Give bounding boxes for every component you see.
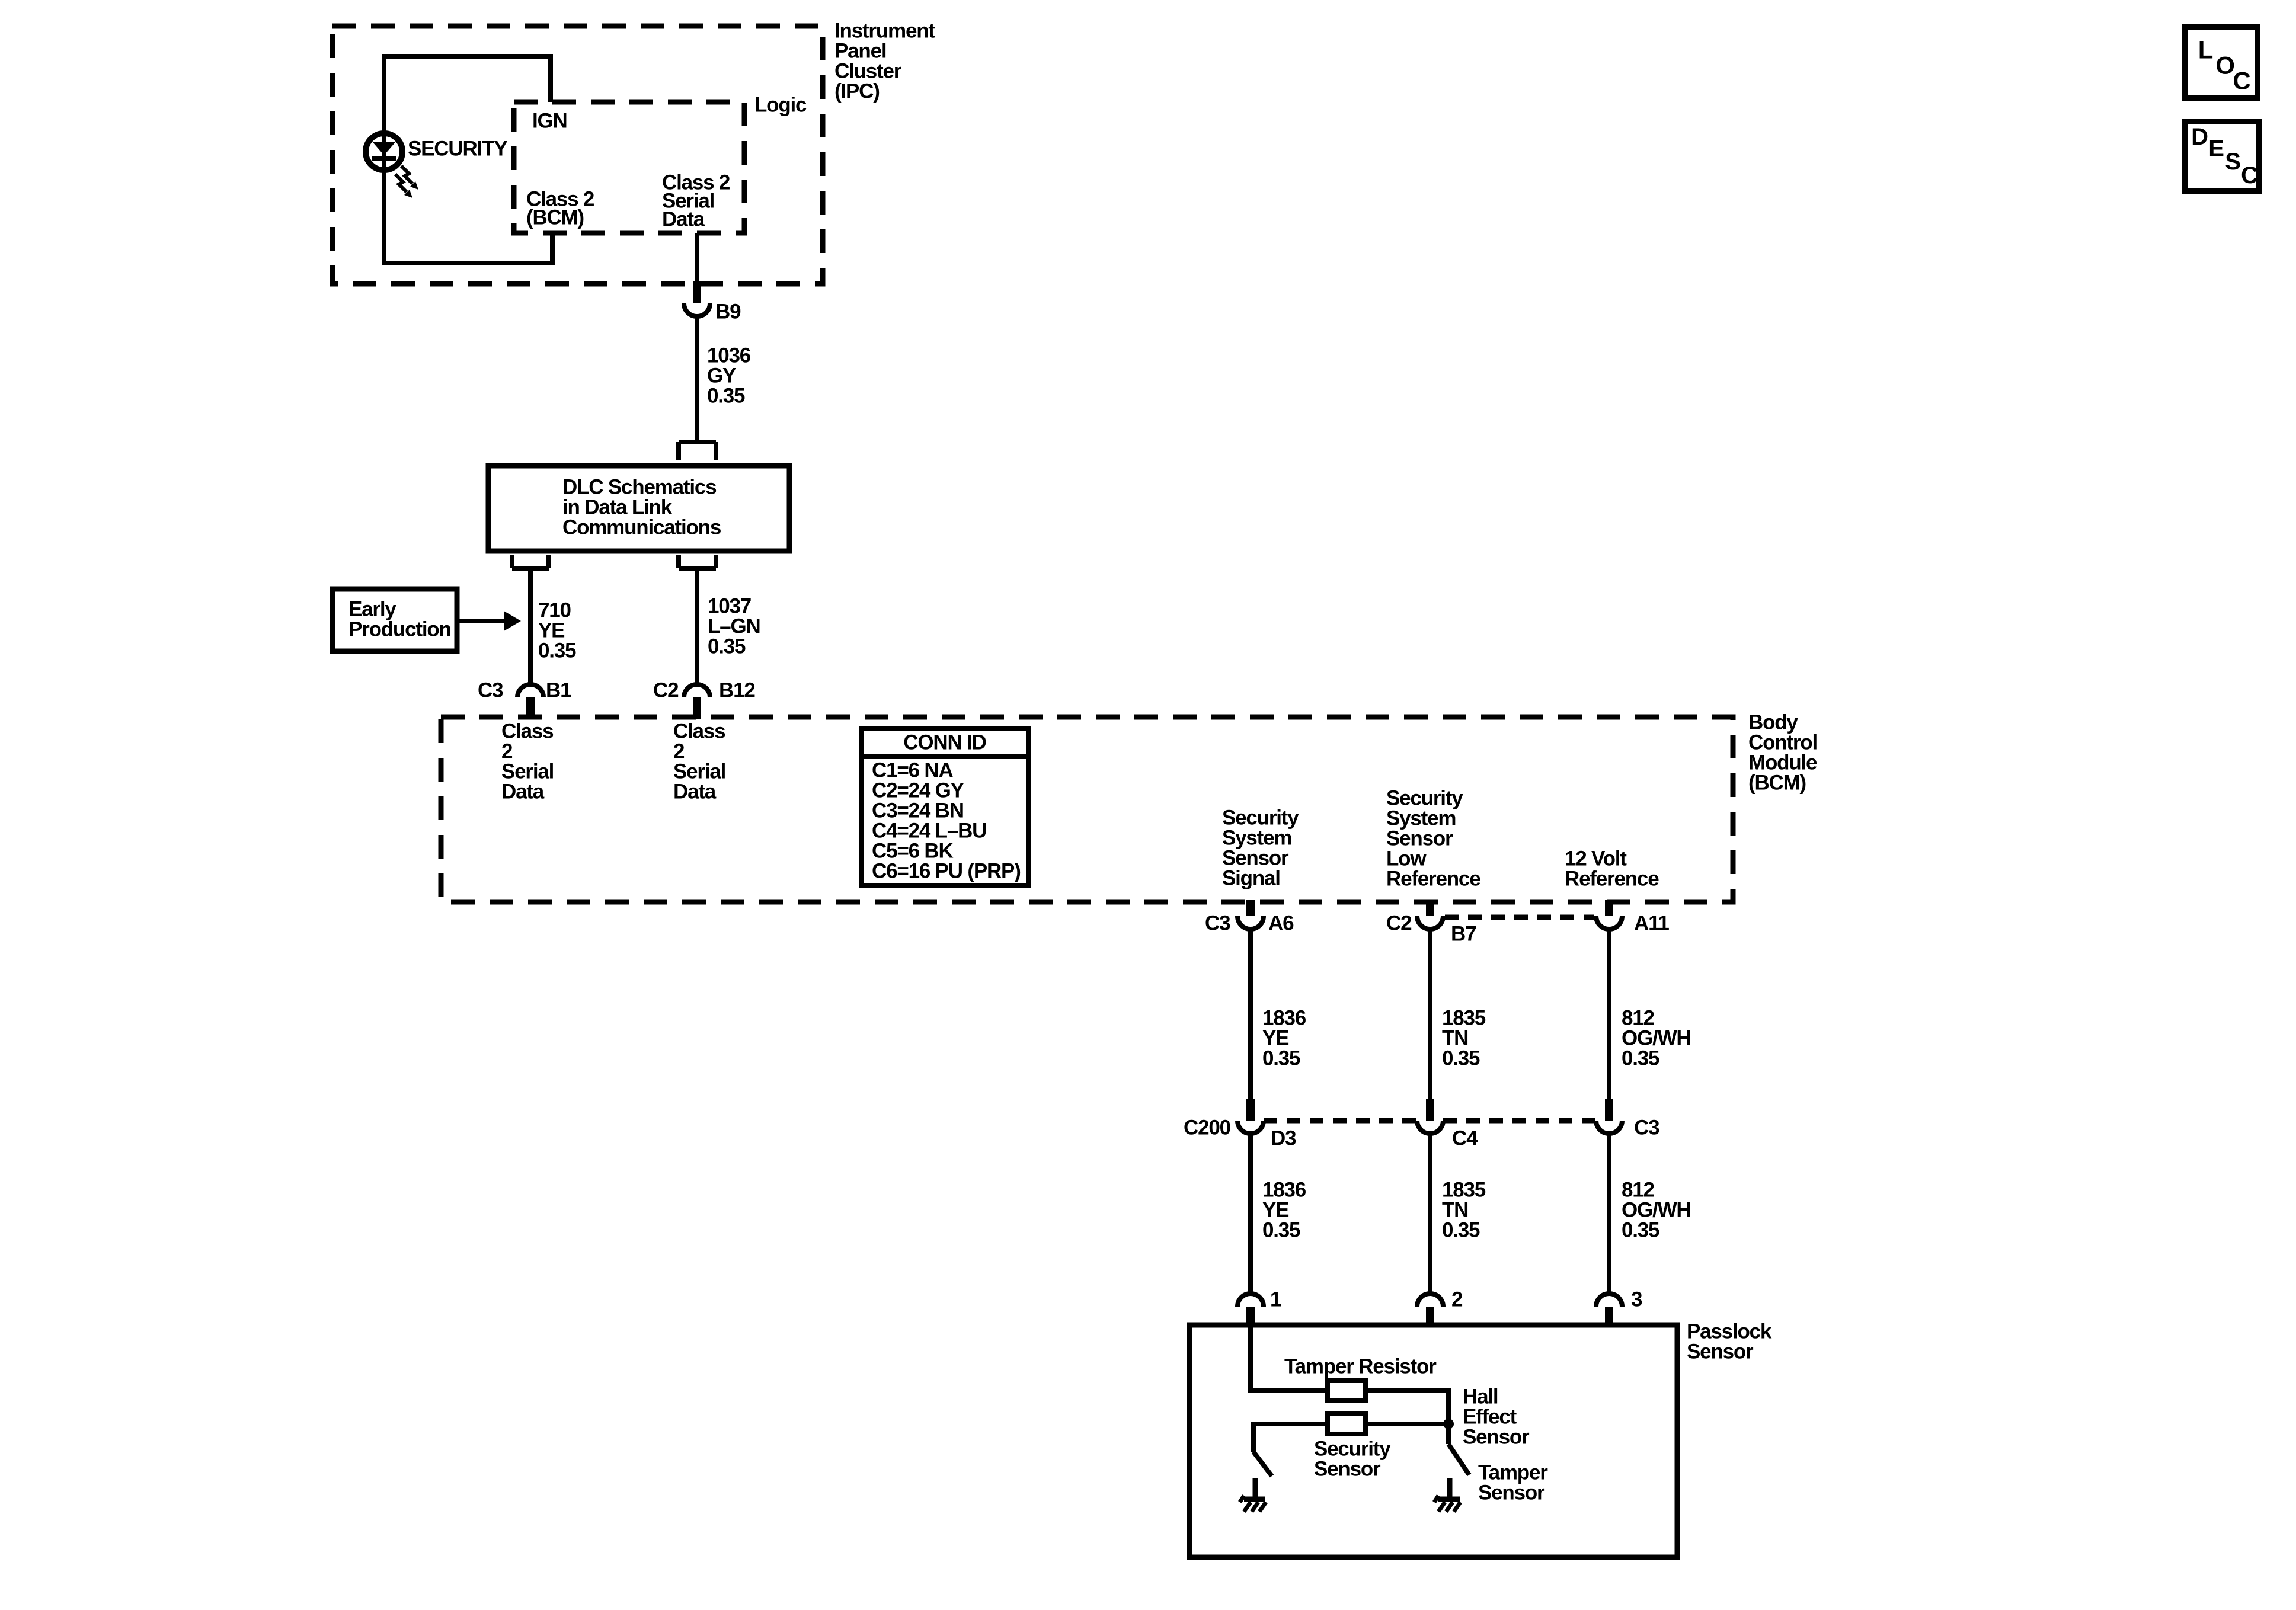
svg-text:C3: C3 — [1634, 1116, 1659, 1140]
wire 812 OG/WH 0.35 (C200 to Passlock pin 3) — [1607, 1134, 1611, 1295]
label: circuit 1037 L-GN 0.35 — [708, 595, 760, 658]
wire: tamper resistor to hall effect output — [1366, 1390, 1448, 1422]
label: Passlock Sensor — [1687, 1320, 1772, 1363]
wire 1036 GY 0.35 (IPC B9 to DLC) — [695, 316, 699, 442]
arrow from Early Production box to wire 710 — [457, 611, 521, 631]
svg-text:A6: A6 — [1268, 912, 1294, 935]
switch blade: security sensor switch — [1253, 1452, 1272, 1476]
svg-text:D: D — [2191, 124, 2208, 150]
connector pin C4 into C200 — [1426, 1099, 1434, 1121]
ground: security sensor ground — [1240, 1478, 1266, 1512]
label: Class 2 Serial Data pin — [662, 171, 730, 231]
label: pin 3 — [1631, 1288, 1642, 1311]
svg-text:C3: C3 — [478, 679, 503, 702]
ground lead below security switch — [1253, 1475, 1258, 1480]
svg-text:0.35: 0.35 — [707, 385, 745, 408]
svg-text:O: O — [2215, 52, 2234, 79]
svg-text:S: S — [2225, 149, 2240, 175]
svg-text:A11: A11 — [1634, 912, 1669, 935]
connector socket B9 (half circle) — [684, 303, 710, 316]
module box: Passlock Sensor — [1189, 1325, 1677, 1557]
label: Logic — [754, 94, 807, 117]
svg-text:0.35: 0.35 — [1442, 1219, 1480, 1242]
svg-text:D3: D3 — [1271, 1127, 1296, 1150]
label: C2 (connector id) — [653, 679, 679, 702]
callout box: Early Production — [332, 589, 457, 651]
dashed tie line between C200 sockets C4 and C3 — [1443, 1118, 1596, 1124]
svg-text:C: C — [2233, 67, 2250, 95]
connector pin B7 from BCM — [1426, 900, 1434, 916]
ground: tamper sensor ground — [1434, 1478, 1460, 1512]
svg-text:1: 1 — [1270, 1288, 1281, 1311]
svg-text:C2: C2 — [653, 679, 679, 702]
connector pin B1 into BCM — [526, 697, 535, 719]
svg-text:3: 3 — [1631, 1288, 1642, 1311]
dashed tie line between connector B7 and A11 (same connector) — [1445, 915, 1594, 920]
label: circuit 710 YE 0.35 — [538, 599, 576, 662]
svg-text:0.35: 0.35 — [708, 635, 746, 658]
connector socket A11 (half circle) — [1596, 916, 1622, 929]
label: Class 2 Serial Data (BCM pin B1) — [501, 720, 554, 804]
in-line connector bracket above DLC box — [679, 442, 716, 460]
svg-text:(IPC): (IPC) — [834, 80, 880, 103]
connector socket A6 (half circle) — [1237, 916, 1264, 929]
connector pin 2 into Passlock Sensor — [1426, 1307, 1434, 1327]
label: Tamper Sensor — [1478, 1461, 1548, 1505]
svg-text:Communications: Communications — [562, 516, 721, 539]
label: Class 2 (BCM) pin — [526, 188, 594, 229]
label: Security System Sensor Low Reference — [1386, 787, 1480, 891]
in-line connector bracket below DLC box (left) — [512, 555, 549, 568]
connector socket B1 (half circle) — [517, 684, 543, 697]
connector socket B12 (half circle) — [684, 684, 710, 697]
in-line connector bracket below DLC box (right) — [679, 555, 716, 568]
svg-text:C: C — [2241, 162, 2257, 188]
label: pin 2 — [1451, 1288, 1463, 1311]
label: DLC Schematics in Data Link Communications — [562, 476, 721, 539]
svg-text:IGN: IGN — [532, 110, 567, 133]
svg-text:Data: Data — [501, 780, 545, 804]
connector socket C3 at C200 (half circle) — [1596, 1121, 1622, 1134]
table header: CONN ID — [903, 731, 986, 754]
connector socket D3 at C200 (half circle) — [1237, 1121, 1264, 1134]
svg-text:C3: C3 — [1205, 912, 1230, 935]
label: A6 (pin id) — [1268, 912, 1294, 935]
module box: Instrument Panel Cluster (IPC), dashed — [332, 26, 823, 284]
label: B9 — [715, 300, 741, 324]
svg-text:Tamper Resistor: Tamper Resistor — [1284, 1355, 1437, 1378]
wire: SECURITY LED cathode to Class 2 (BCM) pin — [384, 173, 552, 263]
svg-text:C2: C2 — [1386, 912, 1412, 935]
svg-text:Data: Data — [662, 208, 705, 231]
module box: Body Control Module (BCM), dashed — [441, 717, 1733, 902]
svg-text:Sensor: Sensor — [1314, 1458, 1381, 1481]
wire: SECURITY LED anode to IGN (up and over) — [384, 56, 551, 132]
label: circuit 1835 TN 0.35 (lower) — [1442, 1179, 1486, 1242]
module box: DLC Schematics in Data Link Communications — [488, 466, 789, 551]
wire: junction to tamper switch — [1446, 1424, 1451, 1444]
svg-text:(BCM): (BCM) — [526, 206, 584, 229]
svg-text:Reference: Reference — [1565, 868, 1659, 891]
label: Instrument Panel Cluster (IPC) — [834, 20, 935, 103]
label: Security System Sensor Signal — [1222, 806, 1299, 890]
resistor: security sensor resistor (lower) — [1328, 1414, 1366, 1434]
resistor: tamper resistor (upper) — [1328, 1381, 1366, 1401]
connector pin A11 from BCM — [1605, 900, 1613, 916]
label: B1 (pin id) — [546, 679, 571, 702]
svg-text:0.35: 0.35 — [1262, 1047, 1300, 1070]
wire: lower resistor to junction — [1366, 1422, 1448, 1426]
label: pin 1 — [1270, 1288, 1281, 1311]
label: C3 (connector id at A6) — [1205, 912, 1230, 935]
connector socket pin 3 of Passlock Sensor (half circle) — [1596, 1294, 1622, 1307]
wire: Class 2 Serial Data inside IPC — [695, 233, 699, 283]
label: Tamper Resistor — [1284, 1355, 1437, 1378]
wire 812 OG/WH 0.35 (BCM A11 to C200 C3) — [1607, 929, 1611, 1099]
svg-text:0.35: 0.35 — [1442, 1047, 1480, 1070]
table header divider — [861, 754, 1028, 759]
label: Class 2 Serial Data (BCM pin B12) — [673, 720, 725, 804]
connector pin C3 into C200 — [1605, 1099, 1613, 1121]
svg-text:CONN ID: CONN ID — [903, 731, 986, 754]
svg-text:C200: C200 — [1184, 1116, 1231, 1140]
connector pin B12 into BCM — [693, 697, 701, 719]
svg-text:E: E — [2208, 136, 2224, 162]
label: circuit 1836 YE 0.35 (lower) — [1262, 1179, 1306, 1242]
connector pin 1 into Passlock Sensor — [1246, 1307, 1255, 1327]
svg-text:Data: Data — [673, 780, 717, 804]
label: 12 Volt Reference — [1565, 847, 1659, 891]
svg-text:C4: C4 — [1452, 1127, 1478, 1150]
svg-text:Signal: Signal — [1222, 867, 1280, 890]
svg-text:B1: B1 — [546, 679, 571, 702]
connector pin A6 from BCM — [1246, 900, 1255, 916]
svg-text:(BCM): (BCM) — [1748, 772, 1806, 795]
label: circuit 812 OG/WH 0.35 (lower) — [1622, 1179, 1690, 1242]
wire 1835 TN 0.35 (C200 to Passlock pin 2) — [1428, 1134, 1432, 1295]
button box: DESC — [2185, 121, 2259, 191]
LED indicator: SECURITY telltale (diode in circle with light arrows) — [366, 132, 418, 198]
wire 710 YE 0.35 (DLC to BCM B1) — [528, 568, 533, 686]
svg-text:B7: B7 — [1451, 923, 1476, 946]
svg-text:0.35: 0.35 — [538, 639, 576, 662]
svg-text:SECURITY: SECURITY — [408, 137, 507, 161]
svg-text:Production: Production — [348, 618, 451, 641]
connector socket pin 2 of Passlock Sensor (half circle) — [1417, 1294, 1443, 1307]
label: Hall Effect Sensor — [1463, 1385, 1530, 1449]
svg-text:Sensor: Sensor — [1687, 1340, 1754, 1363]
label: SECURITY — [408, 137, 507, 161]
svg-text:0.35: 0.35 — [1622, 1219, 1659, 1242]
label: A11 (pin id) — [1634, 912, 1669, 935]
svg-text:C6=16 PU (PRP): C6=16 PU (PRP) — [872, 860, 1021, 883]
connector pin D3 into C200 — [1246, 1099, 1255, 1121]
table rows: connector identifiers — [872, 759, 1021, 883]
svg-text:B12: B12 — [719, 679, 755, 702]
label: IGN pin — [532, 110, 567, 133]
label: C2 (connector id at B7) — [1386, 912, 1412, 935]
svg-text:Sensor: Sensor — [1478, 1481, 1545, 1505]
label: Body Control Module (BCM) — [1748, 711, 1817, 795]
wire: lower resistor left lead — [1253, 1424, 1328, 1452]
wire 1836 YE 0.35 (BCM A6 to C200 D3) — [1248, 929, 1253, 1099]
label: C3 (connector id) — [478, 679, 503, 702]
connector pin 3 into Passlock Sensor — [1605, 1307, 1613, 1327]
svg-text:0.35: 0.35 — [1262, 1219, 1300, 1242]
wire 1836 YE 0.35 (C200 to Passlock pin 1) — [1248, 1134, 1253, 1295]
wire 1835 TN 0.35 (BCM B7 to C200 C4) — [1428, 929, 1432, 1099]
label: B7 (pin id) — [1451, 923, 1476, 946]
label: C4 (pin id) — [1452, 1127, 1478, 1150]
label: circuit 1835 TN 0.35 (upper) — [1442, 1007, 1486, 1070]
module box: IPC Logic block, dashed — [514, 102, 744, 233]
connector socket pin 1 of Passlock Sensor (half circle) — [1237, 1294, 1264, 1307]
svg-text:L: L — [2198, 36, 2213, 64]
label: circuit 1036 GY 0.35 — [707, 344, 751, 408]
label: B12 (pin id) — [719, 679, 755, 702]
svg-text:Logic: Logic — [754, 94, 807, 117]
junction node (hall effect sensor output) — [1443, 1419, 1454, 1429]
table: CONN ID box — [861, 729, 1028, 885]
connector pin B9 of IPC (terminal stub) — [693, 281, 701, 303]
label: D3 (pin id) — [1271, 1127, 1296, 1150]
label: Security Sensor — [1314, 1438, 1391, 1481]
svg-text:0.35: 0.35 — [1622, 1047, 1659, 1070]
switch blade: tamper sensor switch — [1448, 1444, 1469, 1475]
svg-text:2: 2 — [1451, 1288, 1463, 1311]
dashed tie line between C200 sockets D3 and C4 — [1264, 1118, 1417, 1124]
label: Early Production — [348, 598, 451, 641]
svg-text:Sensor: Sensor — [1463, 1426, 1530, 1449]
connector socket B7 (half circle) — [1417, 916, 1443, 929]
wire: pin 1 to tamper resistor — [1251, 1327, 1328, 1390]
svg-text:Reference: Reference — [1386, 868, 1480, 891]
svg-text:B9: B9 — [715, 300, 741, 324]
label: circuit 1836 YE 0.35 (upper) — [1262, 1007, 1306, 1070]
label: circuit 812 OG/WH 0.35 (upper) — [1622, 1007, 1690, 1070]
connector socket C4 at C200 (half circle) — [1417, 1121, 1443, 1134]
label: C200 (connector id) — [1184, 1116, 1231, 1140]
wire 1037 L-GN 0.35 (DLC to BCM B12) — [695, 568, 699, 686]
label: C3 (pin id at C200) — [1634, 1116, 1659, 1140]
button box: LOC — [2185, 27, 2257, 98]
